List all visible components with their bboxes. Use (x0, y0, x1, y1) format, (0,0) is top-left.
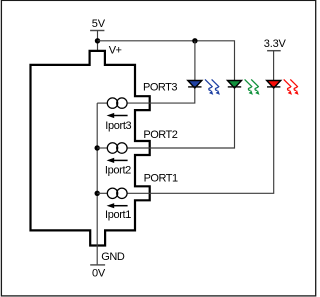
power symbol 5V (90, 18, 106, 51)
wire: PORT2 to green LED cathode (127, 89, 234, 148)
node: bus junction Iport1 (95, 191, 100, 196)
svg-text:5V: 5V (92, 18, 106, 30)
power symbol 3.3V (264, 38, 287, 51)
LED D1 red (267, 81, 281, 89)
svg-text:GND: GND (101, 251, 125, 263)
wire: PORT1 to red LED cathode (127, 89, 273, 194)
LED D3 blue (188, 81, 202, 89)
svg-text:Iport2: Iport2 (105, 164, 131, 176)
current source Iport2 (105, 143, 131, 177)
svg-text:PORT1: PORT1 (144, 173, 178, 185)
current source Iport3 (105, 98, 131, 132)
wire: internal ground bus (96, 103, 98, 265)
svg-text:PORT3: PORT3 (143, 81, 177, 93)
LED D1 emission arrows (red) (284, 79, 298, 94)
wire: red LED anode (273, 51, 275, 80)
wire: Iport3 left (97, 102, 107, 104)
svg-text:3.3V: 3.3V (264, 38, 287, 50)
wire: blue LED anode (194, 41, 196, 80)
wire: PORT3 to blue LED cathode (127, 89, 194, 104)
node: blue LED anode junction (192, 38, 197, 43)
LED D3 emission arrows (blue) (205, 79, 219, 94)
LED D2 emission arrows (green) (245, 79, 259, 94)
wire: Iport1 left (97, 192, 107, 194)
node: bus junction Iport2 (95, 145, 100, 150)
LED D2 green (228, 81, 242, 89)
svg-text:Iport3: Iport3 (105, 120, 131, 132)
svg-text:Iport1: Iport1 (105, 209, 131, 221)
node: 5V junction (95, 38, 100, 43)
current source Iport1 (105, 188, 131, 221)
svg-text:PORT2: PORT2 (143, 129, 177, 141)
wire: 5V rail to LEDs (98, 41, 235, 80)
svg-text:0V: 0V (92, 268, 106, 280)
ground 0V (90, 251, 125, 280)
svg-text:V+: V+ (109, 45, 122, 57)
wire: Iport2 left (97, 147, 107, 149)
op-amp U1 : GPIO port IC outline (31, 51, 150, 246)
